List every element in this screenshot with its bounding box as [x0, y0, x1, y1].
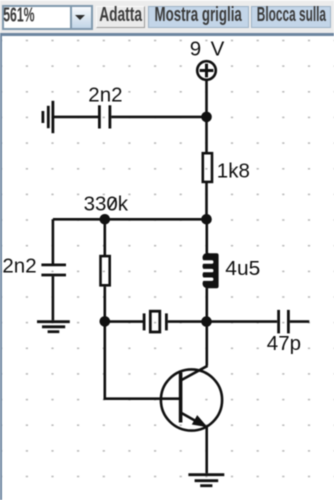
- button Adatta: [96, 6, 145, 28]
- wire C2 to ground: [52, 276, 55, 320]
- capacitor C3 47p: [279, 310, 289, 334]
- svg-text:47p: 47p: [267, 332, 301, 355]
- ground (bottom): [188, 475, 224, 486]
- svg-text:2n2: 2n2: [2, 255, 36, 278]
- crystal X1: [144, 311, 166, 332]
- wire R1 to node B: [205, 183, 208, 219]
- wire supply to node A: [205, 80, 208, 117]
- wire left branch down to C2: [52, 219, 55, 263]
- node C junction: [100, 214, 111, 225]
- label 9 V: [190, 37, 225, 60]
- wire R2 to node D: [104, 287, 107, 322]
- wire base from left column: [105, 322, 181, 399]
- ground (top left, rotated): [43, 101, 53, 133]
- svg-text:V: V: [211, 37, 225, 60]
- wire L1 to node E: [206, 288, 209, 322]
- ground (left bottom): [37, 322, 70, 332]
- wire node B to L1: [206, 219, 209, 253]
- node B junction: [201, 214, 212, 225]
- label 2n2 (top): [88, 84, 122, 107]
- label 47p: [267, 332, 301, 355]
- svg-text:4u5: 4u5: [225, 257, 260, 280]
- button Blocca sulla: [251, 6, 331, 28]
- power supply +9V: [197, 61, 216, 80]
- wire node C to node B: [53, 218, 207, 221]
- wire C1 to node A: [111, 116, 206, 119]
- zoom combobox 561%: [2, 5, 93, 30]
- label 330k: [84, 193, 129, 216]
- resistor R1 1k8: [203, 153, 212, 182]
- svg-text:2n2: 2n2: [88, 84, 122, 107]
- label 1k8: [217, 160, 250, 183]
- svg-text:Mostra griglia: Mostra griglia: [155, 3, 243, 26]
- wire node E to capacitor 47p: [207, 320, 278, 323]
- wire node E to collector: [206, 322, 209, 366]
- svg-text:Adatta: Adatta: [99, 3, 142, 26]
- inductor L1 4u5: [202, 253, 219, 288]
- svg-text:561%: 561%: [3, 4, 34, 27]
- button Mostra griglia: [148, 6, 249, 28]
- wire crystal to node E: [168, 320, 207, 323]
- svg-text:9: 9: [190, 37, 201, 60]
- capacitor C2 2n2 (left): [41, 265, 66, 275]
- node D junction: [100, 316, 111, 327]
- svg-text:330k: 330k: [84, 193, 129, 216]
- svg-text:1k8: 1k8: [217, 160, 250, 183]
- node E junction: [201, 316, 212, 327]
- wire node C to R2: [104, 219, 107, 255]
- node A junction: [201, 112, 212, 123]
- resistor R2 330k: [101, 256, 110, 285]
- wire node D to crystal: [105, 320, 143, 323]
- svg-text:Blocca sulla: Blocca sulla: [257, 3, 327, 26]
- transistor Q1: [161, 366, 222, 431]
- toolbar: [0, 0, 334, 33]
- capacitor C1 2n2 (top): [99, 105, 110, 128]
- wire C3 right stub: [290, 320, 310, 323]
- toolbar labels: [0, 0, 334, 33]
- wire emitter to ground: [205, 427, 208, 473]
- label 4u5: [225, 257, 260, 280]
- wire ground to C1: [53, 116, 98, 119]
- wire node A to R1: [205, 117, 208, 152]
- label 2n2 (left): [2, 255, 36, 278]
